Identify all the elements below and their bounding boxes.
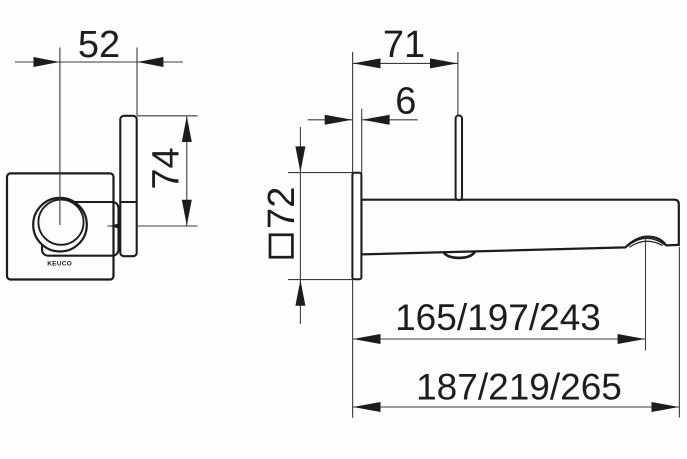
svg-text:KEUCO: KEUCO [47,260,72,267]
spout body [361,200,678,255]
mixer pin on spout [456,116,462,201]
dim 187/219/265 left arrow [353,402,381,412]
dim 71 right arrow [430,58,458,68]
svg-text:74: 74 [146,147,188,189]
lever joint line [120,201,136,203]
dim 187/219/265 right arrow [652,402,680,412]
escutcheon plate 72x72 [7,173,114,279]
dim 52 dimension line [15,61,183,63]
dim 6 left arrow [325,115,353,125]
svg-text:52: 52 [78,24,120,66]
dim 74 top reference line [137,115,198,117]
dim 6 extension line (flange face) [361,109,363,173]
dim 72 bottom arrow (outside, pointing up) [295,280,305,306]
dim 6 dimension line right part [362,119,418,121]
dim 72 dimension line [299,127,301,324]
dim 71 left arrow [353,58,381,68]
dim 74 top arrow [182,116,192,142]
spout tip arch thickening arc [627,238,666,247]
wall flange (escutcheon side view) [352,173,361,279]
dim 52 extension line (lever outer edge) [136,48,138,116]
knob outer circle [33,198,87,252]
aerator axis extension line [645,237,647,350]
dim 187/219/265 dimension line [353,406,680,408]
handle barrel (capsule behind knob) [42,202,119,256]
dim 6 right arrow [362,115,390,125]
dim 165/197/243 left arrow [353,334,381,344]
dim 72 top arrow (outside, pointing down) [295,146,305,172]
spout tip extension line [678,247,680,418]
dim 165/197/243 right arrow [618,334,646,344]
dim 52 extension line (knob centerline) [59,48,61,226]
dim 71 dimension line [353,62,458,64]
square symbol of dim 72 [270,235,292,257]
svg-text:165/197/243: 165/197/243 [395,297,601,338]
lever handle bar [120,116,136,256]
dim 52 left arrow [34,57,60,67]
dim 74 bottom reference line (pivot centerline) [108,225,119,227]
dim 74 dimension line [186,116,188,226]
dim 72 top reference line [288,172,352,174]
aerator bump under spout [443,251,475,258]
dim 6 dimension line left part [308,119,353,121]
wall plane extension line [352,52,354,418]
dim 165/197/243 dimension line [353,338,646,340]
svg-text:6: 6 [395,81,416,123]
spout tip arch inner line [630,241,663,247]
svg-text:72: 72 [261,187,303,229]
dim 72 bottom reference line [288,279,352,281]
knob inner circle [38,200,83,245]
pivot centerline arrow tip [111,223,119,228]
svg-text:71: 71 [383,24,425,66]
dim 52 right arrow [138,57,164,67]
dim 71 extension line (pin axis) [457,52,459,116]
svg-text:187/219/265: 187/219/265 [416,367,622,408]
dim 74 bottom arrow [182,200,192,226]
